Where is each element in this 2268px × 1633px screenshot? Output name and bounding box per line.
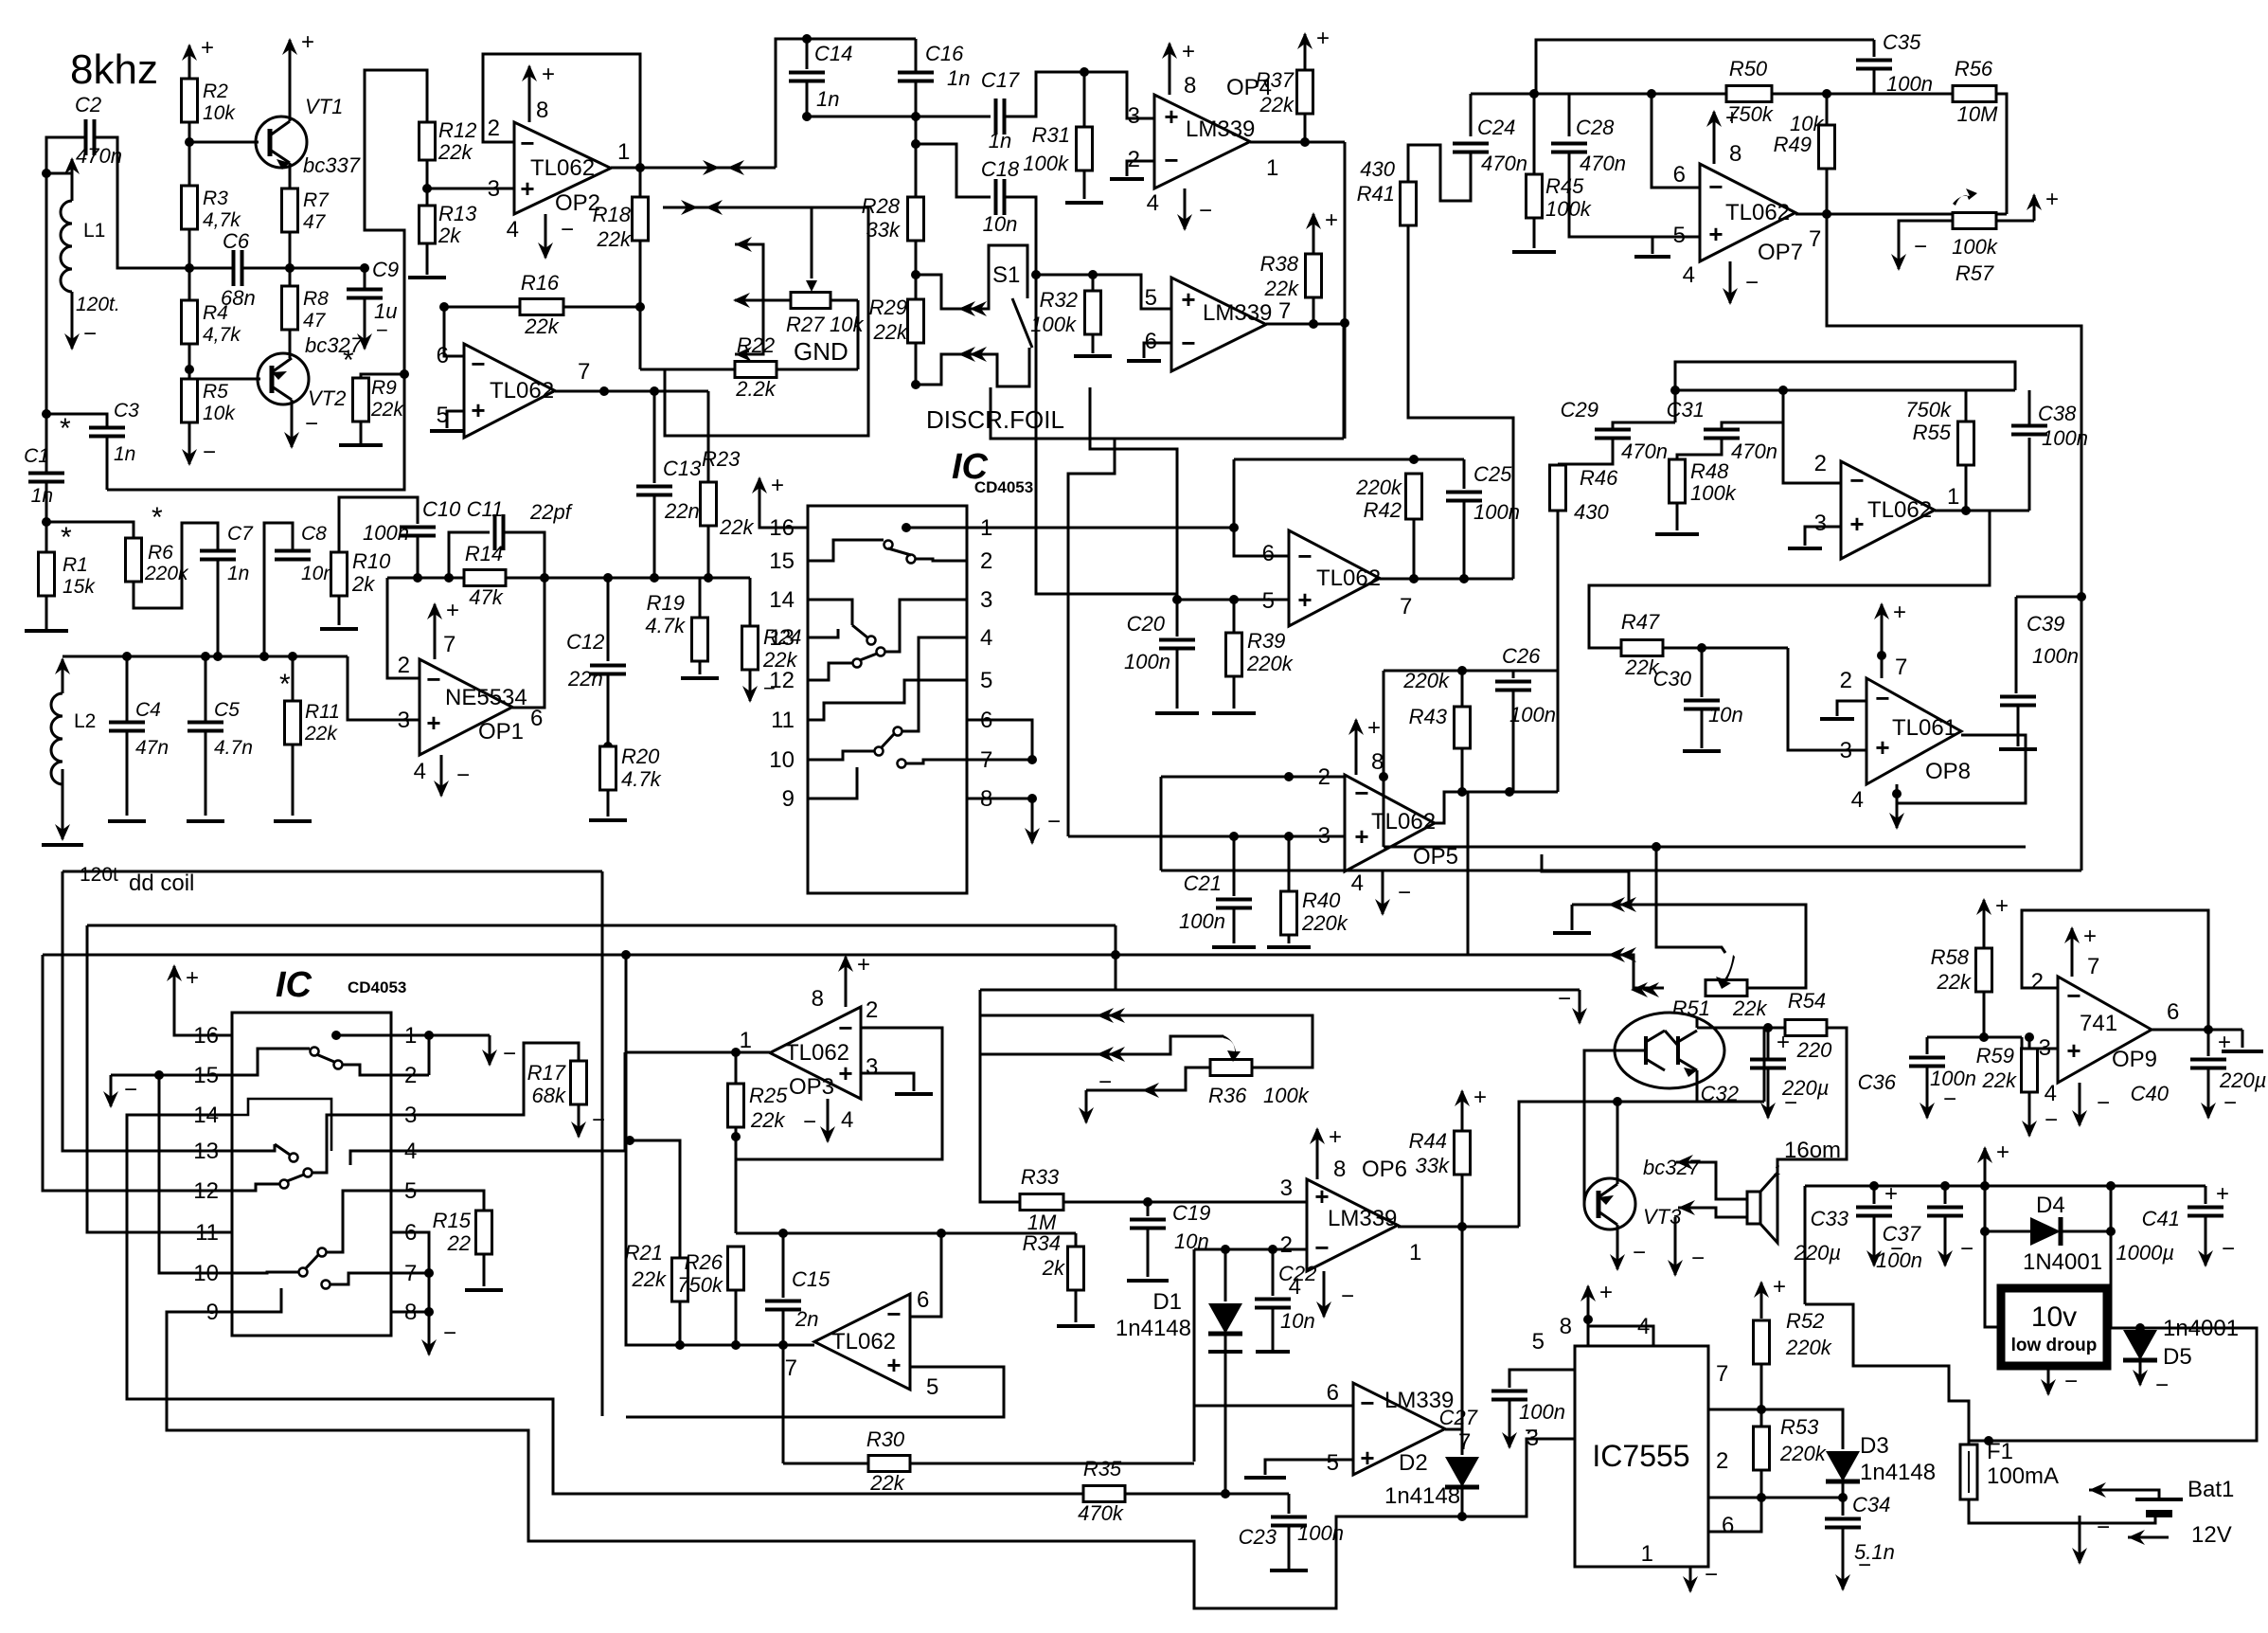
svg-text:+: +	[1875, 733, 1889, 762]
svg-text:8: 8	[812, 986, 824, 1012]
capacitor C38	[2011, 424, 2047, 428]
svg-text:IC: IC	[276, 965, 313, 1005]
svg-text:−: −	[1943, 1086, 1956, 1112]
svg-text:4.7k: 4.7k	[645, 614, 686, 637]
svg-text:33k: 33k	[1416, 1154, 1450, 1177]
svg-text:C38: C38	[2038, 402, 2077, 425]
svg-text:4: 4	[414, 759, 426, 784]
svg-text:OP8: OP8	[1925, 759, 1971, 784]
svg-text:8: 8	[1184, 73, 1196, 99]
wire bus B drop	[1115, 925, 1117, 990]
svg-text:−: −	[456, 763, 470, 788]
svg-text:C20: C20	[1127, 612, 1166, 636]
svg-text:220µ: 220µ	[1794, 1241, 1841, 1265]
svg-text:−: −	[1875, 684, 1889, 712]
capacitor C24	[1470, 94, 1473, 136]
op-amp TL062 U6	[1289, 530, 1380, 626]
svg-text:D1: D1	[1152, 1289, 1182, 1315]
svg-text:100k: 100k	[1952, 235, 1998, 259]
capacitor C14	[806, 39, 809, 69]
wire pin9 chain	[167, 1312, 1462, 1608]
capacitor C16	[915, 39, 918, 73]
resistor R29	[908, 299, 924, 343]
svg-text:R12: R12	[438, 118, 476, 142]
resistor R54	[1785, 1020, 1827, 1036]
svg-text:2: 2	[398, 653, 410, 678]
svg-text:1n4148: 1n4148	[1860, 1460, 1936, 1485]
svg-text:R34: R34	[1023, 1231, 1061, 1255]
svg-text:10k: 10k	[203, 403, 236, 424]
op-amp LM339 U9	[1353, 1383, 1445, 1475]
svg-text:R57: R57	[1955, 261, 1994, 285]
resistor R33	[1020, 1194, 1063, 1211]
op-amp TL062 U7	[814, 1294, 910, 1390]
svg-text:bc337: bc337	[303, 153, 361, 177]
svg-text:22k: 22k	[304, 723, 338, 745]
svg-text:4,7k: 4,7k	[203, 209, 241, 231]
svg-text:L1: L1	[83, 220, 105, 242]
svg-text:4: 4	[841, 1107, 853, 1133]
capacitor C40	[2207, 1030, 2210, 1056]
capacitor C1	[28, 472, 64, 476]
svg-text:−: −	[2097, 1515, 2110, 1540]
svg-text:+: +	[2218, 1030, 2231, 1055]
resistor R48	[1670, 459, 1686, 503]
svg-text:R47: R47	[1621, 610, 1660, 634]
svg-text:1: 1	[1266, 155, 1278, 181]
resistor R7	[282, 188, 298, 232]
svg-text:12: 12	[769, 668, 795, 693]
svg-text:100n: 100n	[1124, 650, 1170, 673]
svg-text:C10: C10	[422, 497, 461, 521]
svg-text:TL062: TL062	[1867, 497, 1932, 523]
svg-text:4: 4	[1351, 870, 1364, 896]
svg-text:4.7n: 4.7n	[214, 737, 253, 759]
wire bus lower	[1161, 870, 2081, 872]
svg-text:6: 6	[437, 343, 449, 368]
wire top-right rail	[1471, 93, 1953, 96]
svg-text:+: +	[2066, 1036, 2080, 1065]
svg-text:R58: R58	[1931, 945, 1970, 969]
svg-text:R42: R42	[1364, 498, 1402, 522]
wire R43 node	[1462, 670, 1558, 673]
svg-text:22k: 22k	[719, 515, 754, 539]
svg-text:220k: 220k	[1301, 911, 1348, 935]
capacitor C25	[1463, 459, 1466, 489]
svg-text:100n: 100n	[1179, 909, 1225, 933]
svg-text:8: 8	[1333, 1157, 1346, 1182]
svg-text:−: −	[376, 318, 388, 342]
svg-text:7: 7	[1458, 1429, 1471, 1455]
svg-text:4: 4	[507, 217, 519, 242]
svg-text:+: +	[520, 174, 534, 203]
svg-text:VT2: VT2	[308, 386, 346, 410]
svg-text:2: 2	[2031, 969, 2044, 995]
svg-text:22k: 22k	[438, 140, 473, 164]
svg-text:low droup: low droup	[2011, 1336, 2098, 1355]
svg-text:750k: 750k	[1905, 398, 1952, 422]
svg-text:C23: C23	[1239, 1525, 1277, 1549]
svg-text:C28: C28	[1576, 116, 1615, 139]
svg-text:4: 4	[1851, 787, 1864, 813]
wire U5 output	[1266, 323, 1344, 326]
svg-text:10k: 10k	[203, 102, 236, 124]
diode D1	[1224, 1249, 1227, 1301]
op-amp OP8 TL061	[1866, 678, 1961, 784]
capacitor C39	[2016, 596, 2081, 599]
svg-text:22k: 22k	[1982, 1068, 2017, 1092]
svg-text:3: 3	[866, 1054, 878, 1080]
capacitor C32	[1622, 1101, 1764, 1104]
svg-text:R9: R9	[371, 377, 397, 399]
svg-text:R30: R30	[866, 1427, 905, 1451]
svg-text:2: 2	[488, 116, 500, 141]
svg-text:1n: 1n	[947, 66, 970, 90]
capacitor C10	[400, 526, 436, 529]
capacitor C3	[89, 426, 125, 430]
switch contacts U3	[902, 523, 911, 532]
svg-text:100n: 100n	[1886, 72, 1933, 96]
svg-text:100n: 100n	[1509, 703, 1556, 727]
svg-text:8khz: 8khz	[70, 46, 158, 93]
svg-text:+: +	[1354, 822, 1368, 851]
svg-text:1: 1	[1641, 1541, 1653, 1567]
svg-text:C41: C41	[2142, 1207, 2180, 1230]
svg-text:R54: R54	[1788, 989, 1826, 1013]
svg-text:C2: C2	[75, 93, 101, 117]
svg-text:R1: R1	[63, 554, 88, 576]
svg-text:−: −	[1705, 1562, 1718, 1588]
svg-text:C16: C16	[925, 42, 964, 65]
op-amp OP6 LM339	[1307, 1179, 1398, 1271]
wire OP1 node	[387, 577, 750, 580]
svg-text:22k: 22k	[370, 399, 404, 421]
fuse F1	[1960, 1445, 1977, 1499]
svg-text:R55: R55	[1913, 421, 1952, 444]
svg-text:C11: C11	[467, 497, 504, 521]
svg-text:4: 4	[980, 625, 992, 651]
svg-text:R49: R49	[1774, 133, 1812, 156]
resistor R38	[1313, 214, 1315, 254]
resistor R46	[1550, 465, 1566, 511]
svg-text:C4: C4	[135, 699, 161, 721]
svg-text:−: −	[1633, 1240, 1646, 1265]
svg-text:R15: R15	[433, 1209, 472, 1232]
svg-text:10v: 10v	[2031, 1301, 2077, 1333]
svg-text:Bat1: Bat1	[2188, 1477, 2234, 1502]
svg-text:TL062: TL062	[1316, 565, 1381, 591]
svg-text:L2: L2	[74, 710, 96, 732]
svg-text:R2: R2	[203, 81, 228, 102]
resistor R39	[1226, 633, 1242, 676]
svg-text:470k: 470k	[1078, 1501, 1124, 1525]
wire OP2 feedback	[483, 54, 640, 197]
svg-text:−: −	[1047, 809, 1061, 834]
resistor R28	[908, 197, 924, 241]
resistor R34	[1068, 1247, 1084, 1290]
svg-text:−: −	[1558, 986, 1571, 1012]
svg-text:C27: C27	[1439, 1406, 1478, 1429]
resistor R14	[464, 570, 506, 586]
svg-text:C30: C30	[1653, 667, 1692, 691]
svg-text:R10: R10	[352, 549, 391, 573]
svg-text:100n: 100n	[2032, 644, 2079, 668]
svg-text:22k: 22k	[1732, 996, 1767, 1020]
svg-text:68k: 68k	[532, 1084, 566, 1107]
svg-text:dd coil: dd coil	[129, 870, 194, 896]
op-amp OP1 NE5534	[420, 659, 512, 755]
svg-text:+: +	[1297, 585, 1312, 614]
resistor R15	[476, 1211, 492, 1254]
transistor VT3	[1584, 1178, 1635, 1229]
svg-text:2: 2	[1716, 1448, 1728, 1474]
capacitor C21	[1233, 836, 1236, 896]
potentiometer R51	[1705, 980, 1747, 996]
svg-text:+: +	[446, 598, 459, 623]
capacitor C27	[1491, 1390, 1527, 1393]
svg-text:10n: 10n	[1708, 703, 1743, 727]
svg-text:13: 13	[193, 1139, 219, 1164]
svg-text:−: −	[124, 1077, 137, 1103]
svg-text:+: +	[471, 396, 485, 424]
svg-text:+: +	[2045, 187, 2059, 212]
capacitor C35	[1873, 40, 1876, 57]
svg-text:7: 7	[1809, 226, 1821, 252]
svg-text:*: *	[61, 522, 72, 553]
resistor R32	[1085, 291, 1101, 334]
svg-text:7: 7	[443, 632, 455, 657]
svg-text:C6: C6	[223, 229, 250, 253]
svg-text:15k: 15k	[63, 576, 96, 598]
svg-text:C35: C35	[1883, 30, 1921, 54]
svg-text:C40: C40	[2131, 1082, 2170, 1105]
svg-text:R44: R44	[1409, 1129, 1447, 1153]
svg-text:22: 22	[447, 1231, 471, 1255]
svg-text:10M: 10M	[1957, 102, 1998, 126]
IC7555	[1575, 1346, 1708, 1567]
svg-text:C9: C9	[372, 258, 399, 281]
svg-text:220k: 220k	[1246, 652, 1294, 675]
svg-text:6: 6	[1327, 1380, 1339, 1406]
svg-text:R11: R11	[305, 701, 340, 723]
op-amp OP7	[1700, 164, 1795, 261]
svg-text:C19: C19	[1172, 1201, 1210, 1225]
svg-text:OP1: OP1	[478, 719, 524, 745]
resistor R49	[1819, 125, 1835, 169]
ground pins 7 8	[1031, 799, 1034, 843]
svg-text:−: −	[2064, 1369, 2078, 1394]
svg-text:−: −	[1691, 1246, 1705, 1271]
svg-text:1: 1	[1947, 484, 1959, 510]
svg-text:100k: 100k	[1690, 481, 1737, 505]
wire bus C	[43, 955, 1664, 988]
svg-text:470n: 470n	[1731, 440, 1777, 463]
potentiometer R27	[791, 293, 830, 309]
svg-text:+: +	[886, 1351, 901, 1379]
svg-text:C25: C25	[1473, 462, 1512, 486]
svg-text:3: 3	[1840, 738, 1852, 763]
svg-text:3: 3	[980, 587, 992, 613]
wire pin1	[391, 1034, 490, 1037]
svg-text:C32: C32	[1701, 1082, 1739, 1105]
svg-text:−: −	[803, 1109, 816, 1135]
svg-text:120t.: 120t.	[76, 294, 120, 315]
wire R41 chain	[1408, 224, 1513, 579]
wire U2 output	[555, 390, 708, 393]
svg-text:−: −	[2045, 1107, 2058, 1133]
svg-text:3: 3	[398, 708, 410, 733]
svg-text:3: 3	[1280, 1175, 1293, 1201]
capacitor C8	[275, 549, 311, 553]
svg-text:IC7555: IC7555	[1592, 1439, 1689, 1473]
svg-text:−: −	[2097, 1090, 2110, 1116]
svg-text:−: −	[561, 217, 574, 242]
svg-text:−: −	[471, 350, 485, 378]
svg-text:7: 7	[1278, 298, 1291, 324]
svg-text:5: 5	[980, 668, 992, 693]
svg-text:6: 6	[1722, 1513, 1734, 1538]
svg-text:TL061: TL061	[1892, 715, 1956, 741]
capacitor C34	[1825, 1517, 1861, 1521]
svg-text:430: 430	[1360, 157, 1395, 181]
svg-text:D5: D5	[2163, 1344, 2192, 1370]
resistor R13	[420, 206, 436, 243]
wire oscillator box	[107, 70, 427, 490]
svg-text:R19: R19	[647, 591, 685, 615]
wire OP5 pin2 riser	[1160, 777, 1163, 870]
svg-text:68n: 68n	[221, 286, 256, 310]
capacitor C11	[449, 532, 490, 578]
svg-text:+: +	[1893, 600, 1906, 625]
capacitor C22	[1272, 1249, 1275, 1296]
resistor R26	[728, 1247, 744, 1290]
svg-text:−: −	[443, 1320, 456, 1346]
resistor R9	[353, 378, 369, 422]
capacitor C33	[1873, 1186, 1876, 1204]
resistor R42	[1406, 474, 1422, 519]
svg-text:9: 9	[782, 786, 795, 812]
svg-text:15: 15	[769, 548, 795, 574]
svg-text:R26: R26	[685, 1250, 723, 1274]
inductor L2	[62, 659, 64, 693]
svg-text:22k: 22k	[1259, 93, 1295, 117]
svg-text:2: 2	[866, 997, 878, 1023]
svg-text:6: 6	[2167, 999, 2179, 1025]
svg-text:100n: 100n	[1297, 1521, 1344, 1545]
wire integrator node	[736, 1232, 1076, 1235]
resistor R6	[126, 538, 142, 582]
diode D3	[1826, 1451, 1860, 1481]
svg-text:+: +	[838, 1059, 852, 1087]
resistor R4	[182, 300, 198, 344]
svg-text:4: 4	[1683, 262, 1695, 288]
svg-text:C37: C37	[1883, 1222, 1921, 1246]
svg-text:220k: 220k	[1402, 669, 1450, 692]
diode D4	[2030, 1217, 2061, 1246]
diode D5	[2123, 1330, 2157, 1360]
svg-text:−: −	[305, 411, 318, 437]
svg-text:−: −	[520, 129, 534, 157]
svg-text:5: 5	[926, 1374, 938, 1400]
svg-text:+: +	[186, 965, 199, 991]
svg-text:−: −	[592, 1107, 605, 1133]
resistor R17	[571, 1061, 587, 1104]
svg-text:C21: C21	[1184, 871, 1222, 895]
svg-text:−: −	[2155, 1373, 2169, 1398]
wire bus D	[980, 989, 1580, 992]
svg-text:−: −	[2066, 981, 2080, 1010]
capacitor C18	[994, 179, 998, 215]
svg-text:+: +	[1849, 510, 1864, 538]
svg-text:R48: R48	[1690, 459, 1729, 483]
resistor R41	[1401, 182, 1417, 225]
resistor R24	[749, 578, 752, 626]
svg-text:R52: R52	[1786, 1309, 1824, 1333]
wire pin1 net	[967, 527, 1234, 529]
speaker 16ohm	[1747, 1192, 1760, 1224]
svg-text:GND: GND	[794, 337, 848, 366]
svg-text:R25: R25	[749, 1084, 788, 1107]
wire pin4	[391, 1150, 625, 1153]
resistor R11	[292, 656, 295, 701]
svg-text:1: 1	[1409, 1240, 1421, 1265]
svg-text:2k: 2k	[351, 572, 375, 596]
op-amp OP2	[514, 122, 611, 214]
svg-text:R14: R14	[465, 542, 503, 565]
svg-text:22k: 22k	[524, 314, 559, 338]
svg-text:3: 3	[1128, 103, 1140, 129]
svg-text:47: 47	[303, 211, 327, 233]
wire top rail	[776, 39, 916, 168]
svg-text:22k: 22k	[750, 1108, 785, 1132]
resistor R5	[182, 379, 198, 422]
svg-text:+: +	[1996, 1140, 2009, 1165]
svg-text:R59: R59	[1976, 1044, 2014, 1068]
node pin15	[154, 1070, 164, 1080]
op-amp TL062 U2	[464, 344, 555, 438]
svg-text:+: +	[1164, 102, 1178, 131]
svg-text:D2: D2	[1399, 1450, 1428, 1476]
capacitor C28	[1568, 94, 1571, 136]
svg-text:+: +	[1360, 1444, 1374, 1472]
svg-text:−: −	[2223, 1090, 2237, 1116]
svg-text:R20: R20	[621, 745, 660, 768]
wire OP5 output	[1435, 792, 1558, 823]
resistor R45	[1527, 174, 1543, 218]
resistor R22	[735, 362, 777, 378]
svg-text:−: −	[838, 1014, 852, 1042]
svg-text:−: −	[1341, 1283, 1354, 1309]
svg-text:100n: 100n	[363, 521, 409, 545]
op-amp LM339 U5	[1171, 278, 1266, 371]
svg-text:LM339: LM339	[1203, 300, 1272, 326]
svg-text:R13: R13	[438, 202, 477, 225]
svg-text:2: 2	[1814, 451, 1827, 476]
svg-text:6: 6	[1673, 162, 1686, 188]
resistor R20	[600, 746, 616, 790]
svg-text:7: 7	[785, 1355, 797, 1381]
wire OP4 output	[1250, 141, 1345, 144]
svg-text:*: *	[152, 502, 163, 533]
svg-text:1n: 1n	[31, 485, 53, 507]
svg-text:14: 14	[769, 587, 795, 613]
power +V pin16	[759, 478, 761, 517]
svg-text:C31: C31	[1667, 398, 1705, 422]
svg-text:OP6: OP6	[1362, 1157, 1407, 1182]
svg-text:OP9: OP9	[2112, 1047, 2157, 1072]
svg-text:100k: 100k	[1263, 1084, 1310, 1107]
svg-text:22k: 22k	[597, 227, 632, 251]
